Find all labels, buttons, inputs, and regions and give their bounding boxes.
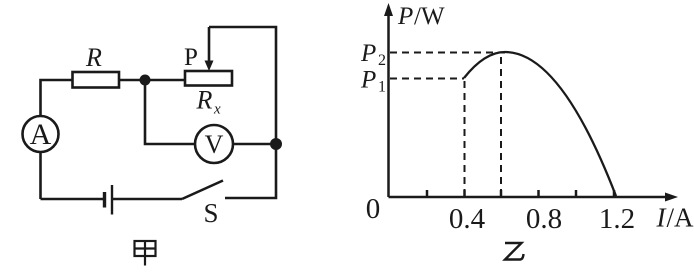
svg-text:0.4: 0.4 (449, 203, 486, 235)
svg-text:x: x (213, 102, 221, 118)
svg-text:/W: /W (414, 3, 445, 30)
svg-text:2: 2 (378, 52, 386, 69)
svg-text:R: R (196, 86, 213, 115)
svg-text:P: P (360, 67, 376, 94)
svg-text:V: V (205, 130, 224, 159)
svg-text:P: P (397, 3, 413, 30)
svg-text:/A: /A (667, 203, 694, 233)
svg-text:1.2: 1.2 (599, 203, 635, 235)
svg-text:P: P (184, 44, 198, 71)
svg-text:0: 0 (366, 193, 381, 225)
svg-text:S: S (203, 198, 218, 228)
svg-text:A: A (30, 118, 52, 151)
svg-text:0.8: 0.8 (526, 203, 562, 235)
svg-text:R: R (85, 43, 102, 72)
svg-text:1: 1 (378, 79, 386, 96)
svg-text:P: P (360, 40, 376, 67)
